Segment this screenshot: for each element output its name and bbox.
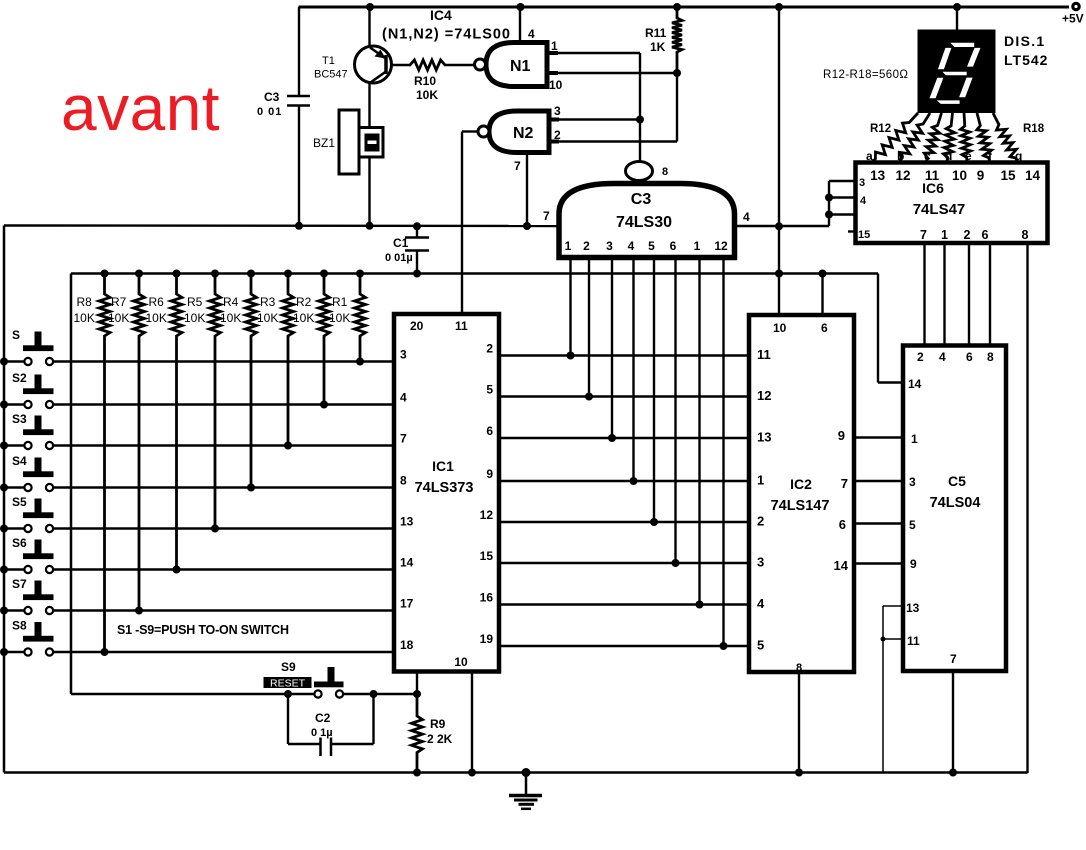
svg-text:IC1: IC1 — [432, 458, 454, 474]
resistor R10 — [409, 60, 446, 102]
label IC4 — [430, 7, 452, 23]
svg-text:74LS373: 74LS373 — [415, 480, 474, 496]
svg-text:20: 20 — [410, 319, 424, 333]
resistors R12-R18 — [872, 113, 1018, 163]
svg-text:5: 5 — [909, 518, 916, 532]
svg-text:3: 3 — [400, 348, 407, 362]
svg-text:2: 2 — [964, 228, 971, 242]
svg-text:IC2: IC2 — [790, 476, 812, 492]
svg-text:4: 4 — [757, 596, 765, 611]
svg-text:c: c — [924, 149, 931, 163]
wire C3 top lead — [298, 7, 300, 96]
svg-text:R3: R3 — [260, 295, 276, 309]
svg-text:15: 15 — [858, 229, 870, 241]
svg-text:N2: N2 — [513, 125, 534, 142]
svg-text:1: 1 — [941, 228, 948, 242]
svg-text:(N1,N2) =74LS00: (N1,N2) =74LS00 — [382, 27, 510, 43]
wire N2 pin3 — [554, 104, 644, 124]
svg-text:4: 4 — [743, 210, 750, 224]
svg-text:17: 17 — [400, 597, 414, 611]
wire reset row — [71, 690, 421, 698]
svg-text:R4: R4 — [223, 295, 239, 309]
ground — [509, 768, 542, 809]
transistor T1 — [314, 46, 409, 83]
wire IC2 pin6 to C5 pin5 — [854, 522, 903, 524]
capacitor C1 — [385, 222, 429, 277]
svg-text:6: 6 — [966, 350, 973, 364]
svg-text:IC4: IC4 — [430, 7, 452, 23]
svg-text:e: e — [965, 149, 972, 163]
wire IC2 pin7 to C5 pin3 — [854, 480, 903, 482]
svg-text:12: 12 — [480, 508, 494, 522]
wire IC6 pin1 to C5 pin4 — [943, 243, 945, 346]
svg-text:3: 3 — [606, 239, 613, 253]
svg-text:16: 16 — [480, 591, 494, 605]
svg-text:R12-R18=560Ω: R12-R18=560Ω — [823, 69, 908, 81]
svg-text:2: 2 — [486, 342, 493, 356]
svg-text:10K: 10K — [184, 311, 205, 325]
wire ground line y226 — [4, 224, 559, 227]
nand gate N2 — [478, 111, 559, 153]
svg-text:+5V: +5V — [1062, 12, 1084, 26]
wire IC2 pin9 to C5 pin1 — [854, 436, 903, 438]
svg-text:BZ1: BZ1 — [313, 136, 335, 150]
svg-text:10K: 10K — [74, 311, 95, 325]
svg-text:T1: T1 — [322, 55, 335, 67]
wire +5V feed to IC2 pin10 — [775, 3, 783, 315]
svg-text:S5: S5 — [12, 495, 27, 509]
svg-text:10: 10 — [549, 78, 563, 92]
svg-text:S3: S3 — [12, 412, 27, 426]
wire C5 pin7 to ground — [949, 671, 957, 777]
svg-text:14: 14 — [908, 377, 922, 391]
svg-text:C2: C2 — [315, 711, 331, 725]
resistor R2 — [293, 270, 330, 409]
svg-text:S6: S6 — [12, 536, 27, 550]
svg-text:13: 13 — [906, 601, 920, 615]
svg-text:8: 8 — [400, 474, 407, 488]
svg-text:3: 3 — [757, 555, 764, 570]
svg-text:1: 1 — [757, 473, 764, 488]
wire N2 output to IC1 pin11 — [462, 132, 478, 315]
svg-text:9: 9 — [910, 557, 917, 571]
svg-text:13: 13 — [400, 515, 414, 529]
svg-text:DIS.1: DIS.1 — [1004, 33, 1046, 49]
nand gate N1 — [475, 43, 559, 87]
svg-text:12: 12 — [757, 388, 771, 403]
wire C3 pin4 to IC6 — [734, 210, 829, 230]
svg-text:1: 1 — [565, 239, 572, 253]
svg-text:6: 6 — [839, 517, 846, 532]
resistor R4 — [220, 270, 257, 492]
svg-text:S8: S8 — [12, 619, 27, 633]
switch S3 — [0, 412, 394, 450]
resistor R1 — [329, 270, 366, 366]
svg-text:C5: C5 — [948, 473, 966, 489]
wire display anode — [953, 3, 961, 30]
svg-text:3: 3 — [859, 177, 865, 189]
buzzer BZ1 — [313, 110, 383, 174]
svg-text:BC547: BC547 — [314, 69, 348, 81]
wire pullup bus — [71, 274, 878, 695]
svg-text:avant: avant — [61, 72, 220, 144]
svg-text:IC6: IC6 — [922, 180, 944, 196]
label (N1,N2)=74LS00 — [382, 27, 510, 43]
svg-text:11: 11 — [757, 347, 771, 362]
ic C5 74LS04 — [903, 346, 1006, 672]
wire data rows IC1 to IC2 — [499, 356, 749, 647]
wire N1 pin1 to C3 bubble — [551, 39, 640, 162]
svg-text:S9: S9 — [281, 660, 296, 674]
switch S4 — [0, 454, 394, 492]
label R18 — [1023, 123, 1045, 135]
wire N1 pin10 to R11 — [549, 69, 681, 92]
ic IC1 74LS373 — [394, 314, 499, 672]
svg-text:9: 9 — [977, 168, 985, 183]
svg-text:11: 11 — [907, 634, 920, 648]
svg-text:S7: S7 — [12, 577, 27, 591]
svg-text:10K: 10K — [257, 311, 278, 325]
wire IC2 pin8 to ground — [795, 672, 803, 777]
node +5V terminal — [1062, 3, 1084, 25]
svg-text:5: 5 — [486, 383, 493, 397]
svg-text:11: 11 — [455, 319, 468, 333]
svg-text:b: b — [897, 149, 904, 163]
svg-text:10: 10 — [952, 168, 967, 183]
label R12-R18 value — [823, 69, 908, 81]
svg-text:0 01µ: 0 01µ — [385, 252, 413, 264]
svg-text:74LS47: 74LS47 — [913, 201, 966, 218]
wire bus to C5 pin14 — [878, 381, 903, 383]
svg-text:13: 13 — [757, 430, 771, 445]
wire C3 bottom lead — [295, 106, 303, 230]
svg-text:2: 2 — [757, 514, 764, 529]
svg-text:R7: R7 — [111, 295, 127, 309]
svg-text:74LS147: 74LS147 — [771, 498, 830, 514]
labels display segments a-g — [866, 149, 1022, 163]
label avant — [61, 72, 220, 144]
svg-text:S4: S4 — [12, 454, 27, 468]
switch S6 — [0, 536, 394, 574]
svg-text:4: 4 — [939, 350, 946, 364]
svg-text:10: 10 — [773, 321, 787, 335]
svg-text:0 1µ: 0 1µ — [311, 727, 333, 739]
svg-text:14: 14 — [400, 556, 414, 570]
wire IC6 pin7 to C5 pin2 — [923, 243, 925, 346]
svg-text:8: 8 — [662, 166, 668, 178]
svg-text:7: 7 — [543, 209, 550, 223]
wire IC1 pin10 to ground — [468, 672, 476, 777]
wire IC6 pin2 to C5 pin6 — [968, 243, 970, 346]
svg-text:R11: R11 — [645, 26, 667, 40]
svg-text:10: 10 — [454, 655, 468, 669]
wire IC2 pin14 to C5 pin9 — [854, 562, 903, 564]
label switch note — [117, 623, 289, 637]
resistor R11 — [645, 3, 682, 73]
wire T1 collector — [366, 3, 374, 47]
svg-text:7: 7 — [950, 652, 957, 666]
svg-text:R10: R10 — [414, 74, 436, 88]
svg-text:12: 12 — [714, 239, 728, 253]
display DIS.1 LT542 — [918, 30, 996, 114]
svg-text:C3: C3 — [631, 191, 652, 208]
svg-text:R5: R5 — [187, 295, 203, 309]
capacitor C3 — [257, 90, 310, 118]
svg-text:N1: N1 — [510, 58, 531, 75]
label R12 — [870, 123, 891, 135]
svg-text:3: 3 — [554, 104, 561, 118]
svg-text:19: 19 — [480, 632, 494, 646]
svg-text:2: 2 — [583, 239, 590, 253]
label DIS.1 — [1004, 33, 1046, 49]
svg-text:10K: 10K — [146, 311, 167, 325]
svg-text:74LS30: 74LS30 — [616, 214, 672, 231]
svg-text:8: 8 — [1022, 228, 1029, 242]
switch S8 — [0, 619, 394, 657]
resistor R8 — [74, 270, 111, 657]
svg-text:6: 6 — [486, 424, 493, 438]
switch S7 — [0, 577, 394, 615]
svg-text:S2: S2 — [12, 371, 27, 385]
svg-text:5: 5 — [757, 638, 764, 653]
resistor R3 — [257, 270, 294, 450]
svg-text:8: 8 — [987, 350, 994, 364]
wire +5V rail — [299, 6, 1070, 9]
svg-text:R9: R9 — [430, 717, 446, 731]
svg-text:R18: R18 — [1023, 123, 1045, 135]
svg-text:7: 7 — [920, 228, 927, 242]
svg-text:RESET: RESET — [270, 678, 306, 690]
svg-text:9: 9 — [838, 428, 845, 443]
wire C5 pins13-11 to ground — [881, 606, 904, 773]
svg-text:13: 13 — [870, 168, 886, 183]
svg-text:2: 2 — [917, 350, 924, 364]
svg-text:10K: 10K — [416, 88, 438, 102]
svg-text:7: 7 — [514, 159, 521, 173]
resistor R7 — [108, 270, 145, 615]
svg-text:6: 6 — [821, 321, 828, 335]
svg-text:R6: R6 — [149, 295, 165, 309]
capacitor C2 — [288, 694, 374, 756]
wire BZ1 to ground line — [366, 157, 374, 230]
svg-text:LT542: LT542 — [1004, 52, 1048, 68]
wire R10 to N1 — [446, 64, 475, 66]
wire IC6 input stub riser — [825, 181, 856, 226]
svg-text:1: 1 — [911, 432, 918, 446]
svg-text:1: 1 — [551, 39, 558, 53]
svg-text:2 2K: 2 2K — [427, 732, 453, 746]
svg-text:74LS04: 74LS04 — [930, 495, 981, 511]
switch S2 — [0, 371, 394, 409]
ic IC6 74LS47 — [848, 163, 1048, 244]
label LT542 — [1004, 52, 1048, 68]
svg-text:R8: R8 — [77, 295, 93, 309]
svg-text:15: 15 — [480, 549, 494, 563]
svg-text:6: 6 — [670, 239, 677, 253]
wire 74LS30 input pins to bus rows — [567, 257, 728, 650]
svg-text:g: g — [1015, 149, 1022, 163]
svg-text:R12: R12 — [870, 123, 891, 135]
wire C3 pin7 label — [543, 209, 550, 223]
svg-text:0 01: 0 01 — [257, 106, 282, 118]
svg-text:7: 7 — [841, 476, 848, 491]
wire left ground bus — [3, 226, 6, 773]
wire T1 emitter — [368, 83, 370, 128]
svg-text:a: a — [866, 149, 873, 163]
wire IC2 pin6 riser — [819, 270, 827, 316]
wire IC1 pin1 down — [416, 672, 418, 695]
svg-text:d: d — [945, 149, 952, 163]
svg-text:C1: C1 — [393, 236, 409, 250]
svg-text:S: S — [12, 328, 20, 342]
resistor R5 — [184, 270, 221, 533]
ic IC2 74LS147 — [749, 315, 854, 674]
svg-text:7: 7 — [400, 432, 407, 446]
wire N2 pin2 to R11 leg — [554, 73, 677, 142]
switch S1 — [0, 328, 394, 366]
nand gate C3 74LS30 — [559, 162, 735, 258]
svg-text:12: 12 — [895, 168, 910, 183]
svg-text:6: 6 — [982, 228, 989, 242]
svg-text:C3: C3 — [264, 90, 280, 104]
svg-text:R1: R1 — [332, 295, 348, 309]
svg-text:4: 4 — [528, 27, 535, 41]
svg-text:15: 15 — [1000, 168, 1016, 183]
svg-text:3: 3 — [909, 475, 916, 489]
svg-text:14: 14 — [1025, 168, 1041, 183]
svg-text:1K: 1K — [650, 40, 666, 54]
svg-text:4: 4 — [400, 391, 407, 405]
svg-text:1: 1 — [694, 239, 701, 253]
wire ground rail — [4, 771, 1028, 774]
switch S5 — [0, 495, 394, 533]
svg-text:14: 14 — [834, 558, 849, 573]
svg-text:9: 9 — [486, 467, 493, 481]
switch S9 RESET — [264, 660, 344, 698]
wire N1 pin4 from rail — [517, 3, 536, 44]
wire IC6 pin8 to ground rail — [1026, 243, 1028, 773]
svg-text:4: 4 — [860, 195, 867, 207]
resistor R9 — [412, 694, 453, 777]
svg-text:4: 4 — [628, 239, 635, 253]
wire IC6 pin6 to C5 pin8 — [989, 243, 991, 346]
svg-text:R2: R2 — [296, 295, 312, 309]
svg-text:5: 5 — [648, 239, 655, 253]
resistor R6 — [146, 270, 183, 574]
wire N2 pin7 down — [514, 153, 531, 231]
svg-text:S1 -S9=PUSH TO-ON SWITCH: S1 -S9=PUSH TO-ON SWITCH — [117, 623, 289, 637]
svg-text:18: 18 — [400, 638, 414, 652]
